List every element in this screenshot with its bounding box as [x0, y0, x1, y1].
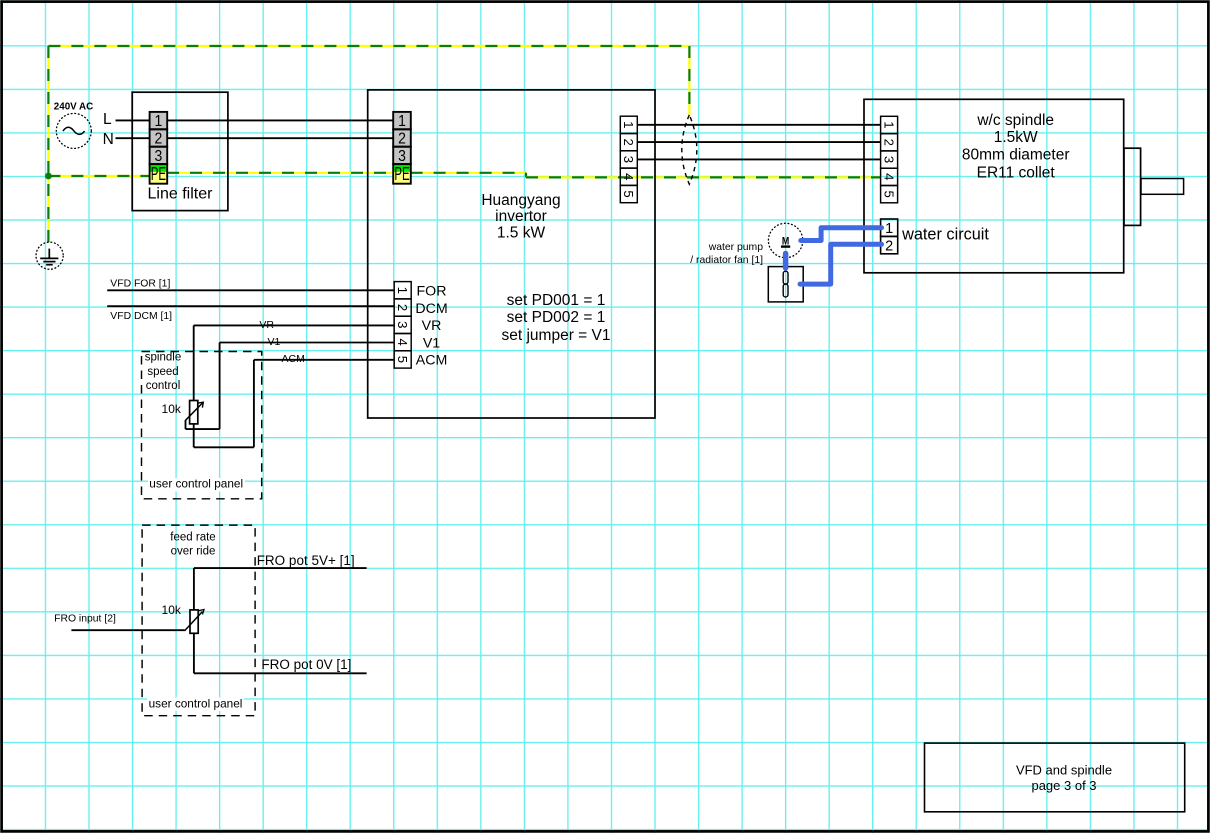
svg-text:VFD and spindle: VFD and spindle	[1016, 762, 1112, 777]
wire PE inverter to cable shield / spindle pin 4	[411, 172, 526, 174]
svg-text:5: 5	[881, 190, 896, 197]
wire FRO pot 0V	[193, 633, 195, 673]
svg-text:invertor: invertor	[495, 208, 547, 225]
spindle flange	[1124, 148, 1141, 225]
svg-text:FRO input [2]: FRO input [2]	[54, 614, 116, 625]
svg-text:5: 5	[395, 356, 410, 363]
svg-text:water pump: water pump	[708, 242, 764, 253]
wire W inverter pin3 to spindle pin3	[637, 158, 880, 160]
svg-text:VFD DCM [1]: VFD DCM [1]	[110, 311, 172, 322]
line filter box	[132, 92, 228, 210]
svg-text:set jumper = V1: set jumper = V1	[502, 327, 611, 344]
svg-text:ACM: ACM	[282, 353, 305, 365]
svg-text:L: L	[103, 111, 112, 128]
wire blue fan to water circuit pin 2	[800, 244, 882, 284]
wire blue pump to water circuit pin 1	[801, 228, 882, 241]
svg-text:user control panel: user control panel	[149, 477, 243, 491]
terminal strip inverter input pins 1 2 3 PE	[393, 112, 411, 185]
label water pump / radiator fan [1]	[690, 242, 763, 266]
svg-text:ACM: ACM	[416, 353, 448, 369]
label set PD001 = 1 / set PD002 = 1 / set jumper = V1	[502, 292, 611, 344]
svg-text:ER11 collet: ER11 collet	[977, 164, 1056, 181]
svg-text:3: 3	[881, 156, 896, 163]
wire VR pot top to inverter VR pin 3	[194, 324, 395, 326]
terminal water circuit pin 2	[881, 236, 898, 253]
svg-text:VFD FOR [1]: VFD FOR [1]	[110, 279, 170, 290]
wire blue pump to fan stub	[783, 254, 789, 269]
label user control panel (feed rate)	[147, 696, 244, 711]
svg-text:10k: 10k	[162, 402, 182, 416]
node PE junction	[45, 173, 52, 180]
wire FRO pot 5V+	[193, 568, 195, 610]
cable shield lens	[682, 115, 697, 184]
svg-text:Line filter: Line filter	[148, 185, 214, 202]
svg-text:FRO pot 0V [1]: FRO pot 0V [1]	[261, 657, 351, 672]
svg-text:4: 4	[621, 173, 636, 180]
svg-text:set PD002 = 1: set PD002 = 1	[507, 309, 606, 326]
svg-text:2: 2	[885, 238, 893, 254]
svg-text:FRO pot 5V+ [1]: FRO pot 5V+ [1]	[257, 553, 355, 568]
terminal strip inverter output pins 1 2 3 4 5	[620, 116, 637, 203]
wire N line filter to inverter pin 2	[167, 137, 393, 139]
wire V inverter pin2 to spindle pin2	[637, 141, 880, 143]
wire VFD DCM to inverter DCM pin 2	[107, 305, 394, 307]
svg-text:4: 4	[881, 173, 896, 180]
svg-text:1: 1	[398, 114, 406, 131]
dashed enclosure spindle speed control	[142, 352, 262, 499]
svg-text:w/c spindle: w/c spindle	[976, 112, 1054, 129]
w/c spindle box	[864, 99, 1124, 272]
svg-text:10k: 10k	[162, 603, 182, 617]
svg-text:FOR: FOR	[417, 283, 447, 299]
svg-text:water circuit: water circuit	[901, 225, 989, 243]
terminal strip line filter pins 1 2 3 PE	[150, 112, 168, 185]
fan blades	[783, 271, 788, 297]
svg-text:1: 1	[621, 121, 636, 128]
dashed enclosure feed rate override	[142, 525, 255, 716]
svg-text:3: 3	[155, 148, 163, 165]
svg-text:3: 3	[395, 321, 410, 328]
svg-text:VR: VR	[422, 318, 442, 334]
svg-text:2: 2	[395, 304, 410, 311]
svg-text:control: control	[146, 380, 181, 392]
svg-text:speed: speed	[147, 366, 178, 378]
wire FRO input to pot wiper	[71, 629, 184, 631]
svg-text:80mm diameter: 80mm diameter	[962, 147, 1070, 164]
svg-text:1: 1	[155, 114, 163, 131]
svg-text:/ radiator fan [1]: / radiator fan [1]	[690, 255, 763, 266]
svg-text:1: 1	[395, 287, 410, 294]
svg-text:PE: PE	[394, 165, 409, 185]
potentiometer R1 10k spindle speed	[186, 401, 204, 424]
svg-text:2: 2	[621, 138, 636, 145]
radiator fan box	[768, 267, 803, 302]
svg-text:page 3 of 3: page 3 of 3	[1031, 778, 1096, 793]
motor M water pump	[768, 223, 802, 257]
svg-text:240V AC: 240V AC	[54, 101, 93, 112]
svg-text:feed rate: feed rate	[170, 532, 215, 544]
wire L to line filter pin 1	[116, 119, 150, 121]
svg-text:user control panel: user control panel	[149, 696, 243, 710]
svg-text:over ride: over ride	[171, 545, 216, 557]
label spindle speed control	[145, 352, 181, 392]
svg-text:1: 1	[881, 121, 896, 128]
wire PE line filter to inverter PE	[167, 172, 393, 174]
svg-text:spindle: spindle	[145, 352, 181, 364]
svg-text:N: N	[103, 131, 114, 148]
svg-text:4: 4	[395, 338, 410, 345]
svg-text:V1: V1	[423, 335, 440, 351]
label w/c spindle 1.5kW 80mm diameter ER11 collet	[962, 112, 1070, 182]
wire ACM pot bottom to inverter ACM pin 5	[254, 359, 394, 361]
svg-text:PE: PE	[151, 165, 166, 185]
svg-text:Huangyang: Huangyang	[481, 192, 560, 209]
wire L line filter to inverter pin 1	[167, 119, 393, 121]
Huangyang inverter box	[368, 90, 655, 418]
wire PE branch to line filter PE	[48, 175, 149, 177]
label feed rate over ride	[170, 532, 215, 558]
svg-text:DCM: DCM	[415, 301, 447, 317]
terminal strip spindle pins 1 2 3 4 5	[881, 116, 898, 203]
wire N to line filter pin 2	[116, 137, 150, 139]
svg-text:3: 3	[621, 156, 636, 163]
title block box	[925, 743, 1185, 812]
spindle shaft	[1141, 179, 1184, 195]
wire PE earth top bus horizontal	[48, 45, 689, 47]
label VFD and spindle page 3 of 3	[1016, 762, 1112, 793]
svg-text:2: 2	[155, 131, 163, 148]
svg-text:3: 3	[398, 148, 406, 165]
terminal strip inverter control pins 1 2 3 4 5	[394, 282, 411, 368]
ground earth symbol	[36, 242, 63, 269]
svg-text:set PD001 = 1: set PD001 = 1	[507, 292, 606, 309]
svg-text:2: 2	[881, 139, 896, 146]
label Huangyang invertor 1.5 kW	[481, 192, 560, 242]
svg-text:V1: V1	[268, 336, 281, 348]
potentiometer R2 10k feed rate	[185, 610, 205, 634]
svg-text:1: 1	[885, 221, 893, 237]
wire VFD FOR to inverter FOR pin 1	[107, 289, 394, 291]
wire PE earth drop into cable shield	[688, 46, 690, 115]
svg-text:5: 5	[621, 190, 636, 197]
label FOR DCM VR V1 ACM	[415, 283, 447, 368]
svg-text:VR: VR	[259, 319, 274, 331]
label user control panel (spindle speed)	[148, 477, 245, 492]
wire U inverter pin1 to spindle pin1	[637, 124, 880, 126]
terminal water circuit pin 1	[881, 219, 898, 236]
AC source V1 240V	[56, 113, 91, 148]
svg-text:2: 2	[398, 131, 406, 148]
svg-text:1.5 kW: 1.5 kW	[497, 225, 546, 242]
svg-text:1.5kW: 1.5kW	[994, 129, 1038, 146]
wire PE earth left vertical drop	[47, 46, 49, 243]
wire V1 pot wiper to inverter V1 pin 4	[220, 342, 395, 344]
